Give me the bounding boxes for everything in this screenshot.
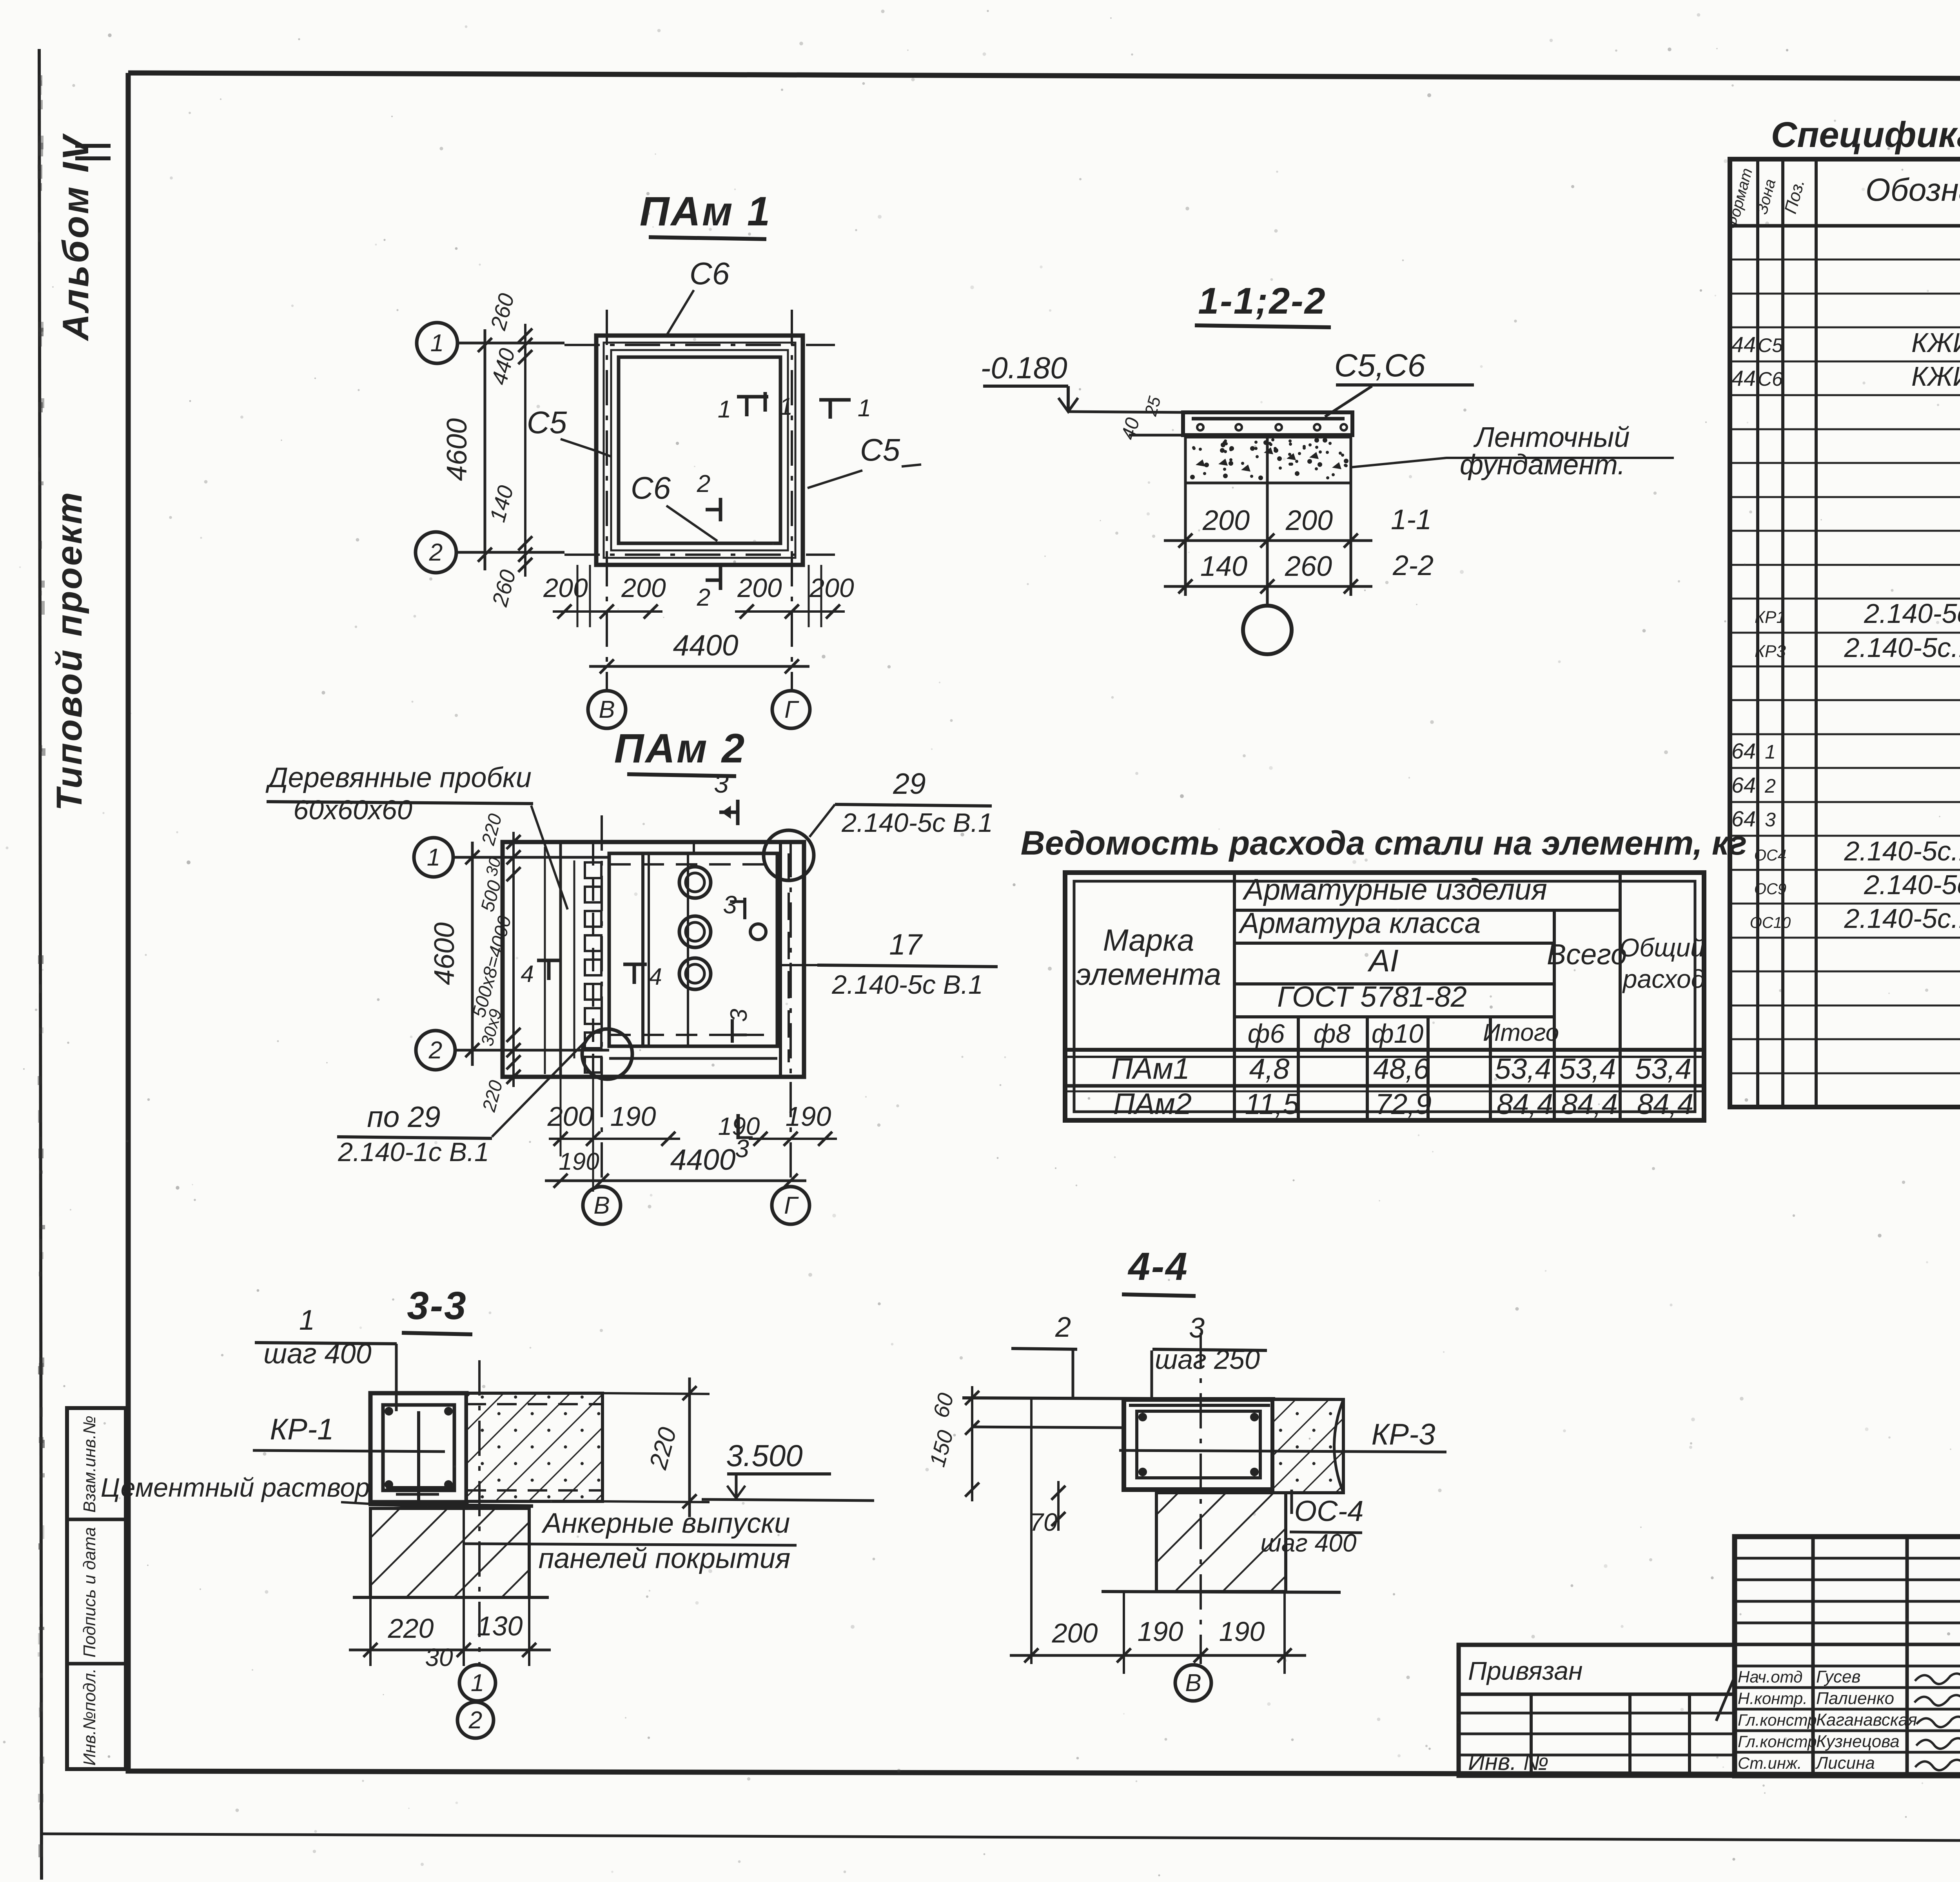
svg-text:Типовой проект: Типовой проект [49,491,89,811]
svg-text:2.140-5с.1-0010-02: 2.140-5с.1-0010-02 [1844,632,1960,663]
svg-text:КЖИ-С5: КЖИ-С5 [1911,361,1960,392]
svg-text:Н.контр.: Н.контр. [1738,1689,1808,1708]
svg-text:190: 190 [718,1112,760,1140]
svg-text:70: 70 [1029,1508,1058,1536]
svg-text:3: 3 [1189,1312,1205,1344]
svg-text:4,8: 4,8 [1249,1053,1290,1085]
svg-text:шаг 250: шаг 250 [1155,1344,1260,1375]
svg-text:44: 44 [1731,366,1756,390]
svg-text:ф10: ф10 [1372,1019,1424,1049]
svg-text:4-4: 4-4 [1127,1245,1189,1289]
svg-text:элемента: элемента [1076,957,1221,991]
svg-text:ОС-4: ОС-4 [1294,1495,1364,1527]
svg-text:1-1: 1-1 [1391,504,1432,535]
svg-text:3: 3 [1765,809,1776,831]
svg-text:панелей покрытия: панелей покрытия [539,1543,791,1574]
svg-text:Деревянные пробки: Деревянные пробки [265,762,532,793]
svg-text:2: 2 [697,470,710,497]
svg-text:64: 64 [1731,739,1756,763]
svg-text:Инв.№подл.: Инв.№подл. [80,1668,99,1766]
svg-text:190: 190 [786,1101,831,1132]
svg-text:Ленточный: Ленточный [1474,422,1630,453]
svg-text:ОС9: ОС9 [1754,880,1786,898]
svg-text:64: 64 [1731,773,1756,797]
svg-text:ПАм 2: ПАм 2 [614,726,746,771]
svg-text:200: 200 [621,573,666,603]
svg-text:130: 130 [477,1611,523,1641]
svg-text:Гусев: Гусев [1816,1667,1860,1686]
svg-text:ПАм 1: ПАм 1 [640,189,772,234]
svg-text:С6: С6 [1758,368,1783,390]
svg-text:Общий: Общий [1619,933,1705,962]
svg-text:3: 3 [714,769,729,799]
svg-text:3: 3 [723,891,737,919]
svg-text:4: 4 [521,961,534,987]
svg-text:ф6: ф6 [1248,1019,1285,1049]
svg-text:-0.180: -0.180 [980,350,1067,385]
svg-text:260: 260 [1285,551,1332,582]
svg-text:140: 140 [1200,551,1247,582]
svg-text:Привязан: Привязан [1468,1656,1583,1685]
svg-text:Палиенко: Палиенко [1816,1689,1894,1708]
svg-text:1: 1 [427,844,440,871]
svg-text:Г: Г [784,1192,799,1219]
svg-text:17: 17 [889,928,923,961]
svg-text:шаг 400: шаг 400 [1261,1529,1357,1557]
svg-text:С6: С6 [690,256,730,291]
svg-text:200: 200 [1052,1618,1098,1648]
svg-text:Спецификация к ПАм1 и ПАм2: Спецификация к ПАм1 и ПАм2 [1771,115,1960,155]
svg-text:200: 200 [809,573,854,603]
svg-text:11,5: 11,5 [1245,1088,1299,1120]
svg-text:4: 4 [649,964,662,990]
svg-text:2: 2 [697,584,710,611]
svg-text:Г: Г [784,696,799,723]
svg-text:С5: С5 [527,405,567,440]
svg-text:1: 1 [471,1670,484,1697]
svg-text:КР3: КР3 [1755,642,1786,661]
svg-text:Арматура класса: Арматура класса [1238,907,1481,939]
svg-text:Ведомость расхода стали на эле: Ведомость расхода стали на элемент, кг [1021,824,1747,862]
svg-text:1: 1 [718,396,731,423]
svg-text:200: 200 [543,573,588,603]
svg-text:Нач.отд: Нач.отд [1738,1668,1802,1686]
svg-text:190: 190 [1219,1616,1265,1647]
svg-text:44: 44 [1731,332,1756,357]
svg-text:Гл.констр: Гл.констр [1738,1711,1817,1729]
svg-text:ГОСТ 5781-82: ГОСТ 5781-82 [1277,980,1467,1013]
svg-text:2: 2 [1764,775,1776,797]
svg-text:1: 1 [299,1305,315,1336]
svg-text:Инв. №: Инв. № [1468,1749,1549,1775]
svg-text:ф8: ф8 [1314,1019,1351,1049]
svg-text:200: 200 [547,1101,593,1132]
svg-text:С5: С5 [1758,334,1783,356]
svg-text:190: 190 [1138,1616,1183,1647]
svg-text:КР-1: КР-1 [270,1413,334,1446]
svg-text:1: 1 [430,330,444,357]
svg-text:ОС4: ОС4 [1754,847,1786,864]
svg-text:1: 1 [779,393,793,420]
svg-text:60х60х60: 60х60х60 [293,795,412,825]
svg-text:2.140-5с.1-0030-03: 2.140-5с.1-0030-03 [1844,836,1960,866]
svg-text:53,4: 53,4 [1559,1053,1616,1085]
svg-text:Гл.констр: Гл.констр [1738,1732,1817,1751]
svg-text:190: 190 [610,1101,656,1132]
svg-text:Каганавская: Каганавская [1816,1710,1917,1730]
svg-text:В: В [1185,1670,1201,1697]
svg-text:шаг 400: шаг 400 [263,1338,371,1370]
svg-text:29: 29 [893,767,926,800]
svg-text:С5,С6: С5,С6 [1334,348,1426,383]
svg-text:Альбом IV: Альбом IV [55,133,96,341]
svg-text:84,4: 84,4 [1637,1088,1693,1120]
svg-text:КР1: КР1 [1755,608,1786,627]
svg-text:1: 1 [858,395,871,422]
svg-text:В: В [593,1192,610,1219]
svg-text:2-2: 2-2 [1392,550,1434,581]
svg-text:ПАм2: ПАм2 [1113,1087,1192,1121]
svg-text:КР-3: КР-3 [1371,1418,1435,1451]
svg-text:2.140-5с.1-0050: 2.140-5с.1-0050 [1864,869,1960,900]
svg-text:фундамент.: фундамент. [1460,449,1625,481]
svg-text:30: 30 [425,1643,453,1671]
svg-text:АI: АI [1367,943,1399,978]
svg-text:48,6: 48,6 [1373,1053,1430,1085]
svg-text:Марка: Марка [1103,923,1194,957]
svg-text:3: 3 [726,1009,752,1022]
svg-text:2.140-5с В.1: 2.140-5с В.1 [831,970,983,1000]
svg-text:Всего: Всего [1547,938,1627,971]
svg-text:расход: расход [1622,964,1705,993]
svg-text:3-3: 3-3 [407,1284,467,1328]
svg-text:3.500: 3.500 [726,1438,802,1473]
svg-text:53,4: 53,4 [1635,1053,1691,1085]
svg-text:С6: С6 [631,470,671,505]
svg-text:72,9: 72,9 [1375,1088,1432,1120]
svg-text:Ст.инж.: Ст.инж. [1738,1754,1802,1772]
svg-text:Арматурные изделия: Арматурные изделия [1242,873,1547,906]
svg-text:Анкерные выпуски: Анкерные выпуски [541,1508,790,1539]
svg-text:Кузнецова: Кузнецова [1816,1732,1900,1751]
svg-text:2.140-1с В.1: 2.140-1с В.1 [338,1137,489,1167]
svg-text:2.140-5с.1-0050-01: 2.140-5с.1-0050-01 [1844,903,1960,934]
svg-text:4600: 4600 [429,922,460,985]
svg-text:2.140-5с.1-0010: 2.140-5с.1-0010 [1864,598,1960,629]
svg-text:4600: 4600 [441,418,473,481]
svg-text:84,4: 84,4 [1497,1088,1553,1120]
svg-text:Обозначение: Обозначение [1866,172,1960,208]
svg-text:190: 190 [559,1148,599,1175]
svg-text:2.140-5с В.1: 2.140-5с В.1 [841,808,993,838]
svg-text:2: 2 [1055,1312,1071,1343]
svg-text:4400: 4400 [673,629,739,662]
svg-text:Цементный раствор: Цементный раствор [101,1473,370,1503]
svg-text:64: 64 [1731,806,1756,831]
svg-text:Подпись и дата: Подпись и дата [80,1527,99,1658]
svg-text:200: 200 [1202,505,1250,536]
svg-text:2: 2 [468,1707,482,1734]
svg-text:84,4: 84,4 [1561,1088,1618,1120]
svg-text:КЖИ-С5: КЖИ-С5 [1911,327,1960,358]
svg-text:4400: 4400 [670,1143,736,1176]
svg-text:ОС10: ОС10 [1750,914,1791,931]
svg-text:200: 200 [1285,505,1333,536]
svg-text:Взам.инв.№: Взам.инв.№ [80,1416,99,1513]
svg-text:1: 1 [1765,741,1776,763]
svg-text:2: 2 [428,1037,442,1064]
svg-text:Лисина: Лисина [1815,1753,1875,1773]
svg-text:1-1;2-2: 1-1;2-2 [1198,280,1326,322]
svg-text:220: 220 [388,1613,434,1644]
svg-text:Итого: Итого [1483,1019,1559,1046]
svg-text:200: 200 [737,573,782,603]
svg-text:по 29: по 29 [367,1100,440,1133]
svg-text:2: 2 [429,539,443,566]
svg-text:В: В [599,696,615,723]
svg-text:ПАм1: ПАм1 [1111,1052,1190,1085]
svg-text:С5: С5 [860,432,900,467]
svg-text:53,4: 53,4 [1495,1053,1551,1085]
